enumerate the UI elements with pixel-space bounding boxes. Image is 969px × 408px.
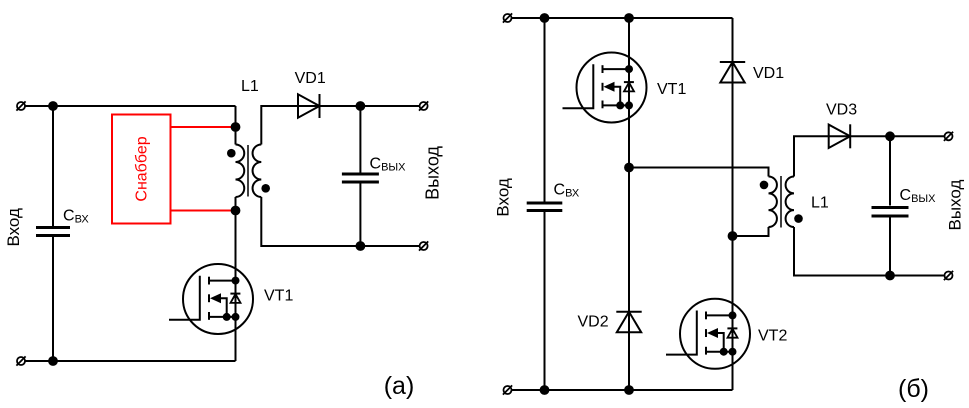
transistor VT1 body-source link wire <box>221 298 227 317</box>
wire: input cap lower branch (a) <box>52 237 54 361</box>
transistor VT1 source junction dots <box>616 101 624 109</box>
transistor VT2 body contact bar <box>705 329 707 337</box>
terminal: input - (a) <box>17 357 25 365</box>
transistor VT1 drain contact bar <box>208 277 210 285</box>
svg-text:L1: L1 <box>241 78 259 95</box>
transistor VT1 source contact bar <box>208 312 210 320</box>
capacitor Cвых (a) <box>342 173 379 176</box>
terminal: input + (b) <box>504 14 512 22</box>
junction: input- / cap (a) <box>48 356 58 366</box>
junction: snubber bottom / primary (a) <box>231 206 241 216</box>
transistor VT2 source contact bar <box>705 347 707 355</box>
diode VD2 (b) <box>616 311 641 313</box>
svg-text:(б): (б) <box>898 375 929 403</box>
transformer L1 (a) secondary winding <box>253 145 262 198</box>
transistor VT1 gate electrode <box>169 276 200 320</box>
junction: bottom rail / VD2 (b) <box>624 385 634 395</box>
wire: VT1 source to primary top (b) <box>629 168 769 177</box>
transistor VT2 drain lead wire <box>706 314 733 316</box>
junction: top rail / cap (b) <box>540 13 550 23</box>
transistor VT2 body-source link wire <box>718 333 724 352</box>
transformer L1 (a) core <box>247 145 249 197</box>
capacitor Cвх (a) <box>36 226 70 229</box>
terminal: input - (b) <box>504 386 512 394</box>
wire: bottom input rail (a) <box>21 360 236 362</box>
transformer L1 (a) primary winding <box>236 145 245 198</box>
wire: output cap lower branch (b) <box>889 217 891 276</box>
wire (red): snubber top lead <box>171 126 236 128</box>
transistor VT2 source lead wire <box>706 351 733 353</box>
svg-text:VT1: VT1 <box>657 81 686 98</box>
svg-text:VD1: VD1 <box>753 65 784 82</box>
transistor VT1 body contact bar <box>602 83 604 91</box>
transistor VT1 body diode cathode bar <box>624 81 634 83</box>
transistor VT1 drain junction dot <box>232 277 240 285</box>
capacitor Cвх (b) <box>527 202 563 205</box>
wire: VT1/VD2 vertical line (b) <box>628 18 630 390</box>
transistor VT1 body diode triangle <box>231 294 241 303</box>
junction: output- / cap (a) <box>356 241 366 251</box>
junction: output+ / cap (b) <box>885 131 895 141</box>
transistor VT1 source lead wire <box>209 316 236 318</box>
transformer L1 (b) core <box>780 176 782 228</box>
svg-text:Вход: Вход <box>494 178 513 217</box>
transistor VT1 source junction dots <box>223 313 231 321</box>
wire: primary top segment (a) <box>235 106 237 145</box>
junction: top rail / VT1 (b) <box>624 13 634 23</box>
wire: primary bottom to VT2 drain (b) <box>733 227 769 236</box>
terminal: output - (a) <box>420 242 428 250</box>
transistor VT1 body-source link wire <box>615 87 621 106</box>
wire: top input rail (b) <box>508 17 733 19</box>
transistor VT1 gate electrode <box>563 64 594 108</box>
transistor VT2 body diode triangle <box>728 329 738 338</box>
transistor VT1 source contact bar <box>602 101 604 109</box>
transistor VT2 body circle <box>680 299 750 369</box>
svg-text:VT2: VT2 <box>758 328 787 345</box>
transistor VT2 drain contact bar <box>705 312 707 320</box>
junction: output- / cap (b) <box>885 271 895 281</box>
capacitor Cвых (b) <box>872 206 909 209</box>
transistor VT1 drain contact bar <box>602 65 604 73</box>
wire: output cap lower branch (a) <box>359 184 361 247</box>
svg-text:(а): (а) <box>384 372 415 400</box>
transistor VT2 body diode cathode bar <box>727 327 737 329</box>
transistor VT2 source junction dots <box>720 348 728 356</box>
terminal: output + (a) <box>420 102 428 110</box>
svg-text:VD1: VD1 <box>295 70 326 87</box>
transistor VT1 source lead wire <box>603 104 630 106</box>
transistor VT1 body arrow <box>604 82 615 92</box>
transformer L1 (a) primary phase dot <box>227 149 236 158</box>
transistor VT1 drain lead wire <box>209 280 236 282</box>
wire (red): snubber bottom lead <box>171 210 236 212</box>
wire: output cap upper branch (a) <box>359 106 361 173</box>
transistor VT1 drain lead wire <box>603 68 630 70</box>
svg-text:VD2: VD2 <box>578 314 609 331</box>
transformer L1 (b) primary phase dot <box>760 181 769 190</box>
terminal: output + (b) <box>945 132 953 140</box>
transistor VT1 body circle <box>577 53 647 123</box>
diode VD1 (b) <box>720 61 745 63</box>
junction: bottom rail / cap (b) <box>540 385 550 395</box>
transformer L1 (b) secondary phase dot <box>794 214 803 223</box>
wire: secondary top to output+ (b) <box>794 136 949 176</box>
terminal: input + (a) <box>17 102 25 110</box>
svg-text:VD3: VD3 <box>826 102 857 119</box>
wire: input cap lower branch (b) <box>544 212 546 390</box>
junction: output+ / cap (a) <box>356 101 366 111</box>
transistor VT2 body arrow <box>707 328 718 338</box>
wire: secondary bottom to output- (a) <box>261 197 423 246</box>
wire: input cap upper branch (a) <box>52 106 54 226</box>
transistor VT1 body circle <box>183 264 253 334</box>
diode VD1 (a) <box>298 94 320 117</box>
snubber box (red) <box>112 115 171 224</box>
junction: VT1 source node (b) <box>624 163 634 173</box>
transformer L1 (b) primary winding <box>769 177 777 228</box>
wire: secondary top to output+ (a) <box>261 106 423 145</box>
transformer L1 (b) secondary winding <box>786 177 794 228</box>
wire: output cap upper branch (b) <box>889 136 891 205</box>
wire: primary / drain-source main line (a) <box>235 197 237 361</box>
transistor VT1 body diode cathode bar <box>230 293 240 295</box>
junction: snubber top / primary (a) <box>231 122 241 132</box>
svg-text:Выход: Выход <box>946 179 965 230</box>
diode VD3 (b) <box>829 125 851 148</box>
svg-text:Вход: Вход <box>4 208 23 247</box>
transistor VT2 gate electrode <box>666 311 697 355</box>
wire: input cap upper branch (b) <box>544 18 546 202</box>
transistor VT1 body arrow <box>210 293 221 303</box>
wire: bottom rail (b) <box>508 389 733 391</box>
junction: VD1 / primary / VT2 drain (b) <box>728 231 738 241</box>
svg-text:VT1: VT1 <box>264 288 293 305</box>
transistor VT2 drain junction dot <box>729 311 737 319</box>
transistor VT1 body contact bar <box>208 294 210 302</box>
terminal: output - (b) <box>945 272 953 280</box>
wire: secondary bottom to output- (b) <box>794 227 949 276</box>
svg-text:Выход: Выход <box>422 146 442 200</box>
wire: top input rail (a) <box>21 105 236 107</box>
svg-text:L1: L1 <box>811 195 829 212</box>
transistor VT1 drain junction dot <box>625 65 633 73</box>
junction: input+ / cap (a) <box>48 101 58 111</box>
svg-text:Снаббер: Снаббер <box>134 136 151 201</box>
transformer L1 (a) secondary phase dot <box>261 184 270 193</box>
wire: VD1/VT2 vertical line (b) <box>732 18 734 390</box>
transistor VT1 body diode triangle <box>624 83 634 92</box>
